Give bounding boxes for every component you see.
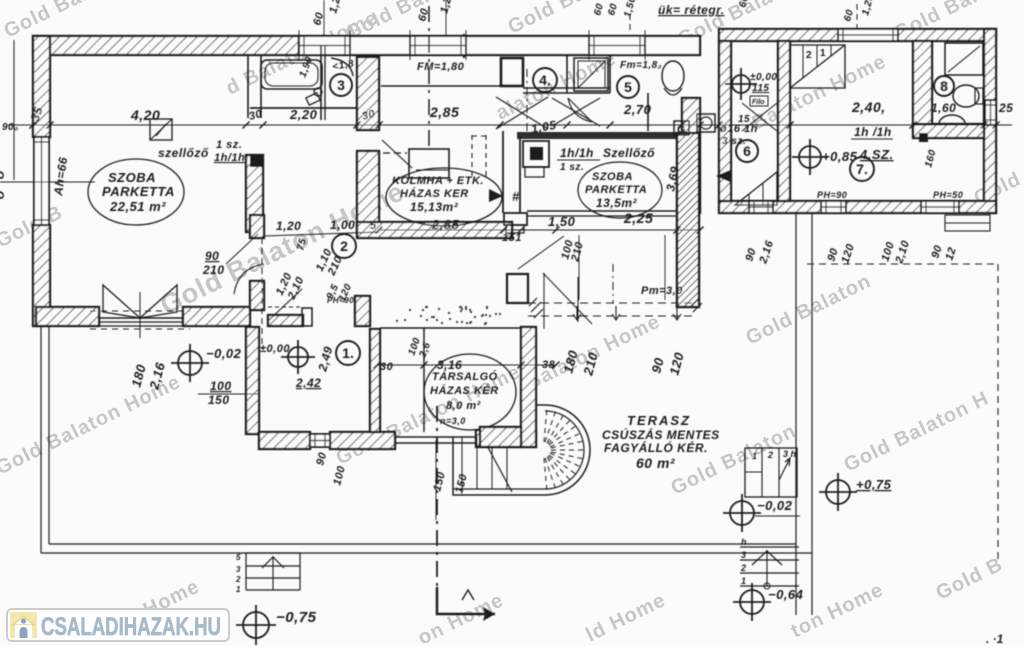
wall left of szoba 13.5 a [502,131,504,213]
shower room 8 [945,43,983,75]
svg-text:HÁZAS KÉR: HÁZAS KÉR [430,384,499,397]
dash vert top b [629,14,631,34]
svg-text:n=3,0: n=3,0 [440,416,466,426]
terrace edge left outer [40,326,42,553]
svg-text:2,20: 2,20 [289,107,318,122]
svg-text:1,60: 1,60 [931,101,956,115]
svg-text:25: 25 [998,101,1013,115]
svg-text:1.: 1. [342,345,354,361]
wall hall/tarsalgo vertical [370,329,380,432]
washer box [697,114,715,132]
wall bottom end kitchen divider [355,296,370,326]
dimension tick2 [553,227,560,234]
dimension tick [260,122,267,129]
wall top right block [719,29,996,41]
svg-text:2,40,: 2,40, [851,99,886,115]
level mark room6 [725,68,757,100]
leader 100-210 diagonal [518,236,564,269]
window top middle 2 [589,36,645,55]
terrace edge bottom inner [49,543,796,545]
dimension tick [47,122,54,129]
svg-text:±0,00: ±0,00 [750,72,777,83]
svg-text:2: 2 [340,238,348,254]
wall bottom big room right part [183,307,250,326]
flue square room 8 [919,133,928,142]
dimension tick3 [518,362,525,369]
window tick [298,30,300,60]
door swing room6 X [742,103,777,131]
dimension tick [910,122,917,129]
window above room 3 [299,36,350,55]
svg-text:60 m²: 60 m² [636,455,675,471]
svg-text:1,20: 1,20 [276,219,301,233]
level mark hall [281,340,315,374]
dimension tick [679,122,686,129]
dimension tick [607,122,614,129]
svg-text:7.: 7. [856,161,868,177]
stair triangle room6 [735,172,777,205]
svg-text:5: 5 [624,79,632,95]
steps right upper [745,448,797,497]
toilet room 8 [953,85,983,107]
steps right lower [740,537,799,589]
svg-text:ük= rétegr.: ük= rétegr. [658,3,725,17]
room label kolmha ellipse [386,168,502,226]
wall tarsalgo right [521,327,536,447]
svg-text:1h/1h: 1h/1h [214,152,245,164]
dim line mid vert b [664,235,666,300]
stairs room7 top [790,45,845,88]
wall corridor bottom [517,132,696,139]
leader to wall [226,234,258,264]
thin vert t2 [577,277,579,322]
svg-text:8: 8 [940,78,948,94]
svg-text:FM=1,80: FM=1,80 [417,61,465,73]
svg-text:Fm=1,8₂: Fm=1,8₂ [620,60,662,71]
dimension tick [30,122,37,129]
dim vert line spiral [435,440,437,520]
door dashes hall [268,306,302,308]
wall room5/6 vertical [682,98,700,213]
filo box room6 [750,96,768,106]
chimney filled square [250,154,263,167]
dimension tick [993,122,1000,129]
G meter box [674,121,689,136]
wall top middle band [299,36,700,55]
svg-text:100: 100 [210,379,232,393]
svg-text:150: 150 [208,393,230,407]
svg-text:90₀: 90₀ [2,122,19,133]
door arrow room6 [716,170,730,182]
section corner arrow [437,587,495,621]
underline r7 [851,138,893,140]
door swing diagonal szoba [543,273,592,324]
terrace pillar [507,274,528,303]
svg-text:5: 5 [370,220,377,232]
dimension tick2 [501,227,508,234]
svg-text:1h /1h: 1h /1h [854,125,892,139]
level mark -0,75 [236,605,276,645]
svg-text:TERASZ: TERASZ [627,413,691,428]
kitchen dashed shaft [472,135,486,180]
svg-text:PH<90: PH<90 [327,296,354,305]
level mark room7 [792,139,828,175]
dimension tick [243,122,250,129]
wall right block right [984,29,996,213]
svg-text:1: 1 [752,451,757,461]
wall room5 right [609,55,611,93]
hatch marks wall foot b [691,298,702,312]
wall right block bottom [719,201,996,213]
room circle 1 [336,341,360,365]
kitchen lowered ceiling line [381,85,501,87]
level mark -0,02 right [723,494,761,532]
window tick [588,30,590,60]
terrace tick 2 [612,306,620,320]
room circle 4 [533,68,557,92]
door jamb szoba 13.5 left [504,213,527,233]
svg-text:2,70: 2,70 [623,102,652,117]
svg-text:−0,75: −0,75 [276,609,317,626]
svg-text:1h/1h: 1h/1h [560,146,594,160]
dim line y232 [264,232,379,236]
wall corridor top b [523,92,610,94]
terrace tick 3 [673,306,681,320]
svg-text:1: 1 [820,48,826,59]
wall hall bottom [259,432,310,449]
door leaf hall [269,289,302,320]
wall hall left [246,327,259,434]
svg-text:szellőző: szellőző [158,146,209,160]
svg-text:5: 5 [236,553,241,562]
dimension tick3 [421,362,428,369]
wall room7/room8 [913,41,932,133]
wall room2/kitchen vertical [357,151,379,229]
wall left outer lower [33,225,50,326]
dashed hall left [261,238,263,349]
shower room 4 [574,58,608,91]
window tick [349,30,351,60]
wall below room8 [913,124,984,138]
wall between room2 and hall piece [250,215,264,238]
dimension tick [787,122,794,129]
wall corridor top a [523,87,610,89]
dimension tick2 [518,227,525,234]
svg-text:1 sz.: 1 sz. [560,162,584,173]
dimension tick3 [553,362,560,369]
door arc room5 [568,98,592,122]
svg-text:2,85: 2,85 [431,217,460,232]
hatch marks wall foot a [529,298,543,318]
svg-text:HÁZAS KER: HÁZAS KER [400,187,469,200]
svg-text:3: 3 [741,550,746,560]
svg-text:30: 30 [380,361,394,373]
door leaf room5 [568,98,592,122]
wall right of big room upper b [260,55,262,118]
dash vert top a [428,6,430,150]
level mark -0,02 left [171,344,209,382]
window right block bottom 2 [821,201,846,213]
terrace edge right outer [811,213,813,615]
left vertical dimension line [13,40,15,180]
dash marks kitchen [383,152,407,154]
room circle 5 [617,76,639,98]
room label szoba 13,5 ellipse [578,162,662,218]
window right block top [838,29,898,41]
dimension tick [376,122,383,129]
svg-text:13,5m²: 13,5m² [596,196,638,210]
thin vert t1 [543,273,545,329]
underline -0,02 right [755,515,800,517]
dashed terrace line b [528,315,696,317]
svg-text:PARKETTA: PARKETTA [585,184,647,196]
svg-text:3: 3 [236,565,241,574]
wall kitchen bottom band [357,222,512,238]
room label tarsalgo ellipse [424,354,516,430]
svg-text:210: 210 [202,263,225,277]
wall left outer [33,36,50,137]
svg-text:KOLMHA + ETK.: KOLMHA + ETK. [392,175,484,187]
toilet room 5 [662,61,684,95]
window tick [409,30,411,60]
svg-text:h: h [741,537,747,547]
svg-text:1,50: 1,50 [548,214,576,229]
dimension line y227 [379,229,700,231]
dashed line right [997,264,999,560]
door jamb hall [302,308,312,326]
wall tarsalgo bottom [476,430,536,447]
door arc room6 small [679,139,692,152]
tub screen room 3 [321,45,325,120]
room circle 6 [736,140,758,162]
svg-text:90: 90 [205,249,219,263]
door leaf kitchen [382,140,412,168]
svg-text:TÁRSALGÓ: TÁRSALGÓ [432,370,498,383]
wall right of szoba 13.5 [677,133,699,307]
dimension tick [354,122,361,129]
wall room3 bottom [250,107,357,109]
window right block bottom 3 [921,201,959,213]
svg-text:−0,02: −0,02 [757,498,793,513]
room circle 3 [330,74,352,96]
svg-text:2,85: 2,85 [429,104,459,120]
svg-text:22,51 m²: 22,51 m² [109,199,166,214]
svg-text:2,42: 2,42 [295,376,321,390]
window right wall 25 [985,100,996,125]
dash vert top c [856,4,858,29]
svg-text:3,16: 3,16 [437,358,462,372]
wall room6/room7 [778,41,790,201]
dim line 100 150 [198,393,260,395]
svg-text:ø16 1h​: ø16 1h​ [720,123,758,135]
svg-text:PH=50: PH=50 [933,190,963,200]
dimension tick3 [374,362,381,369]
svg-text:+0,75: +0,75 [856,477,892,492]
door arrow kitchen [489,189,503,202]
sink room 8 [939,115,965,124]
svg-text:1: 1 [741,576,746,586]
svg-text:1: 1 [236,585,241,594]
wall right of big room upper a [247,55,249,118]
window left wall [34,137,49,225]
svg-text:FAGYÁLLÓ KÉR.: FAGYÁLLÓ KÉR. [604,440,708,455]
dash vert kitchen [526,69,528,131]
dimension line y365 tarsalgo [377,364,556,366]
svg-text:4.: 4. [539,72,551,88]
wall piece left of hall [250,281,264,310]
svg-text:PARKETTA: PARKETTA [102,184,175,199]
svg-text:1 sz.: 1 sz. [216,139,242,151]
svg-text:2: 2 [740,563,746,573]
wall above spiral horizontal [480,427,521,447]
svg-text:151: 151 [502,232,522,244]
terrace tick 1 [573,306,581,320]
svg-text:CSÚSZÁS MENTES: CSÚSZÁS MENTES [602,427,720,442]
window tick [644,30,646,60]
window right block bottom 1 [749,201,773,213]
wall bottom big room left part [36,307,99,326]
steps right of block [945,215,990,231]
svg-text:2: 2 [767,450,773,460]
door swing X corridor b [552,98,600,126]
svg-text:1,00: 1,00 [330,218,355,232]
svg-text:3 h: 3 h [783,449,797,459]
svg-text:G: G [677,124,686,136]
logo csaladihazak.hu [7,609,229,641]
dimension tick2 [674,227,681,234]
svg-text:−0,02: −0,02 [206,346,242,361]
dim vert x446 [445,0,447,36]
window wide bottom sill [395,437,476,443]
level mark +0,75 [819,473,857,511]
svg-text:Pm=3,0: Pm=3,0 [641,285,683,297]
svg-text:2: 2 [806,50,812,61]
svg-text:−0,64: −0,64 [768,587,804,602]
dashed line top right area [807,263,998,265]
wall room6 left [719,41,731,201]
dim line mid vert a [578,235,580,300]
kitchen counter rect [409,149,449,178]
svg-text:115: 115 [752,83,769,94]
section dash-dot line [436,406,438,587]
window end jamb x464 [463,34,465,58]
dimension tick [564,122,571,129]
wall room3/kitchen vertical [357,57,379,130]
stove szoba 13.5 [523,141,549,177]
dimension tick [716,122,723,129]
pier between kitchen and room4 [501,58,523,86]
door arc room 3 [331,58,353,76]
wall shower room5 divider [647,93,649,131]
underline 1h mid [557,159,600,161]
wall room4/5 divider [566,55,568,93]
dimension tick [497,122,504,129]
window tick [465,30,467,60]
svg-text:PH=90: PH=90 [817,190,847,200]
spiral staircase [453,405,590,495]
wall tarsalgo inner left [423,328,425,432]
door arc room1 to big room [234,264,264,294]
room circle 2 [332,234,356,258]
drain circle room 3 [314,88,322,96]
dimension tick2 [376,227,383,234]
dashed terrace line a [528,302,696,304]
window hall bottom small [310,434,330,447]
svg-text:4.SZ.: 4.SZ. [859,147,894,162]
sill lines under szoba 13.5 [527,211,677,216]
terrace edge bottom outer [41,552,812,554]
vent box with X [150,119,172,140]
svg-text:Filo: Filo [752,99,765,106]
svg-text:Szellőző: Szellőző [603,146,655,160]
dimension tick [697,122,704,129]
svg-text:4,20: 4,20 [130,107,160,123]
svg-text:. ·1: . ·1 [986,632,1004,646]
svg-text:3 sz.: 3 sz. [722,136,746,147]
wall right of big room lower [246,155,263,232]
door big room triangles [90,285,190,338]
dimension tick [981,122,988,129]
bathtub room 3 [261,60,322,89]
door swing X corridor a [496,97,548,129]
wall top left block [33,36,299,55]
svg-text:2: 2 [235,575,241,584]
dimension tick2 [697,227,704,234]
svg-text:CSALADIHAZAK.HU: CSALADIHAZAK.HU [41,613,221,641]
wall left of szoba 13.5 b [519,136,521,213]
room label szoba 22,51 ellipse [88,159,184,225]
terrace edge right inner [795,213,797,615]
wall hall bottom 2 [330,432,395,449]
terrace steps bottom [235,553,300,594]
svg-text:15,13m²: 15,13m² [410,200,459,214]
svg-text:8,0 m²: 8,0 m² [446,400,481,412]
svg-text:38: 38 [542,359,556,371]
wall tarsalgo top line [380,327,521,329]
dashdot vert t3 [612,264,614,303]
svg-text:SZOBA: SZOBA [592,171,633,183]
room circle 8 [934,76,954,96]
terrace edge left inner [48,326,50,544]
dim vert x324 [323,0,325,36]
level mark -0,64 [733,583,771,621]
svg-text:±0,00: ±0,00 [260,343,290,355]
soap rect room 3 [306,93,320,105]
wall top of hall piece [268,315,303,326]
room circle 7 [850,157,874,181]
terrace line below big room [41,325,246,327]
window top middle 1 [410,36,466,55]
svg-text:3: 3 [337,77,345,93]
dotted strip terrace [396,306,501,325]
main horizontal dimension line [8,124,1012,126]
svg-text:#: # [512,189,520,204]
left small line [0,181,95,183]
svg-text:+0,85: +0,85 [822,149,858,164]
svg-text:SZOBA: SZOBA [108,170,156,185]
